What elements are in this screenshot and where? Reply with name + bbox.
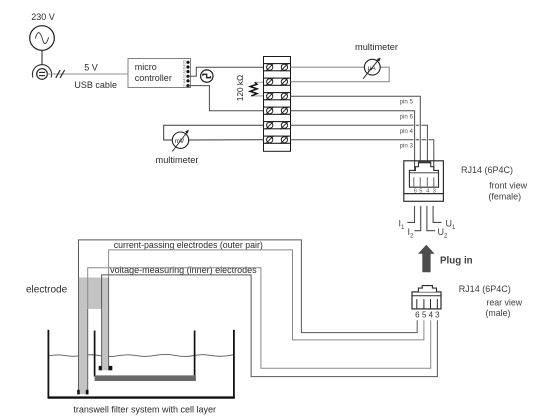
svg-text:RJ14 (6P4C): RJ14 (6P4C) <box>459 284 511 294</box>
svg-text:rear view: rear view <box>486 297 522 307</box>
svg-text:front view: front view <box>489 180 528 190</box>
svg-text:6: 6 <box>415 310 420 319</box>
svg-text:U2: U2 <box>438 227 449 240</box>
svg-text:Plug in: Plug in <box>440 255 473 266</box>
svg-text:I1: I1 <box>399 219 406 232</box>
svg-text:(female): (female) <box>489 192 522 202</box>
svg-text:(male): (male) <box>486 308 511 318</box>
svg-text:D4: D4 <box>183 65 187 69</box>
svg-text:pin 4: pin 4 <box>400 128 414 135</box>
svg-text:120 kΩ: 120 kΩ <box>236 75 245 101</box>
svg-text:electrode: electrode <box>26 284 68 295</box>
svg-text:multimeter: multimeter <box>156 155 199 165</box>
svg-text:3: 3 <box>433 188 436 194</box>
svg-text:current-passing electrodes (ou: current-passing electrodes (outer pair) <box>114 240 263 250</box>
svg-text:5: 5 <box>419 188 422 194</box>
svg-text:230 V: 230 V <box>31 12 55 22</box>
svg-text:voltage-measuring (inner) elec: voltage-measuring (inner) electrodes <box>110 265 257 275</box>
svg-text:3: 3 <box>435 310 440 319</box>
svg-text:USB cable: USB cable <box>74 80 117 90</box>
svg-text:5: 5 <box>422 310 427 319</box>
svg-text:I2: I2 <box>408 227 415 240</box>
svg-text:pin 6: pin 6 <box>400 113 414 120</box>
svg-text:D2: D2 <box>183 74 187 78</box>
svg-text:controller: controller <box>135 73 172 83</box>
svg-text:A3: A3 <box>183 69 187 73</box>
svg-text:transwell filter system with c: transwell filter system with cell layer <box>73 405 216 415</box>
svg-text:micro: micro <box>135 62 157 72</box>
svg-text:pin 5: pin 5 <box>400 99 414 106</box>
svg-text:5 V: 5 V <box>84 62 98 72</box>
svg-text:RJ14 (6P4C): RJ14 (6P4C) <box>461 165 513 175</box>
svg-text:U1: U1 <box>446 219 457 232</box>
svg-text:multimeter: multimeter <box>355 42 398 52</box>
svg-text:6: 6 <box>414 188 417 194</box>
svg-text:A4: A4 <box>183 79 187 83</box>
svg-text:pin 3: pin 3 <box>400 143 414 150</box>
svg-text:4: 4 <box>429 310 434 319</box>
svg-text:D0: D0 <box>183 83 187 87</box>
svg-text:D5: D5 <box>183 60 187 64</box>
